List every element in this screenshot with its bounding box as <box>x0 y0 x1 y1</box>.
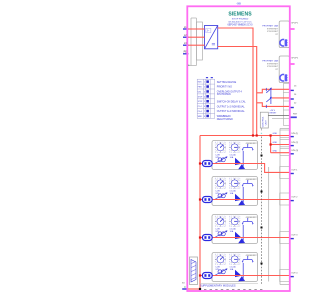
svg-text:24V (2): 24V (2) <box>291 142 298 144</box>
svg-text:SWITCH-ON DELAY & CAL: SWITCH-ON DELAY & CAL <box>217 100 247 103</box>
output channel 3 <box>212 215 258 244</box>
svg-text:PROFINET LAN: PROFINET LAN <box>262 25 278 28</box>
wire mains L2 <box>189 36 205 38</box>
output plug channel 1 <box>202 161 212 167</box>
svg-text:P3+4: P3+4 <box>198 111 202 113</box>
pin 24V(1) <box>289 136 293 138</box>
svg-text:ETHERNET: ETHERNET <box>267 28 279 30</box>
wire 24V(2) <box>271 144 290 146</box>
converter U1 (AC/DC power supply) <box>205 26 218 49</box>
wire 24V branch <box>270 136 272 153</box>
svg-text:OUT 3: OUT 3 <box>291 235 298 237</box>
terminal block X1 (mains input terminal group) <box>188 18 202 66</box>
svg-text:SHUTDOWN: SHUTDOWN <box>217 94 231 96</box>
svg-text:8: 8 <box>204 116 205 118</box>
wire 24V rail <box>200 135 290 137</box>
pin OUT1 <box>289 173 293 175</box>
supplementary feed wire <box>188 288 201 290</box>
svg-text:GND: GND <box>273 133 278 135</box>
output plug channel 2 <box>202 197 212 203</box>
svg-text:ETHERNET: ETHERNET <box>267 63 279 65</box>
svg-text:7: 7 <box>204 111 205 113</box>
svg-text:OVERLOAD OUTPUT 4: OVERLOAD OUTPUT 4 <box>217 91 243 94</box>
node supplementary bus <box>199 288 201 290</box>
junction node bus/aux <box>256 134 258 136</box>
svg-text:6EP3437-8MB00-2CY0: 6EP3437-8MB00-2CY0 <box>228 23 254 26</box>
section separator <box>199 282 258 284</box>
wire mains L1 <box>189 28 205 30</box>
svg-text:OUTPUT 3+4 INDIVIDUAL: OUTPUT 3+4 INDIVIDUAL <box>217 110 246 113</box>
svg-text:SUPPLEMENTARY MODULES: SUPPLEMENTARY MODULES <box>200 283 236 287</box>
junction node channel 4 <box>199 274 201 276</box>
supplementary bus dashed <box>204 289 265 291</box>
DIP switch table S1 <box>197 77 246 121</box>
svg-text:XP1/P2: XP1/P2 <box>291 57 299 59</box>
svg-text:RST: RST <box>293 113 298 115</box>
svg-text:PROFINET LAN: PROFINET LAN <box>262 60 278 63</box>
svg-text:WIREBREAK: WIREBREAK <box>217 115 231 118</box>
D-sub system interface connector X3 <box>190 257 198 285</box>
output plug channel 3 <box>202 235 212 241</box>
terminal rail right side <box>279 129 281 285</box>
control bus dashed <box>261 137 263 285</box>
wire channel 3 output <box>200 237 290 239</box>
terminal 24V(1) <box>280 130 290 138</box>
junction node channel 3 <box>199 236 201 238</box>
wire DC bus top <box>218 28 253 136</box>
PROFINET port U2 <box>262 21 289 48</box>
terminal OUT4 box <box>280 270 290 282</box>
pin OUT3 <box>289 238 293 240</box>
output channel 2 <box>212 177 258 206</box>
node control ch1 <box>261 155 263 157</box>
wire channel feed <box>199 136 201 290</box>
terminal group bracket OUT <box>268 167 270 282</box>
svg-text:4: 4 <box>204 96 205 98</box>
pin L3 <box>183 44 188 46</box>
node control ch4 <box>261 263 263 265</box>
pin 24V(2) <box>289 145 293 147</box>
junction node 24V(2) <box>270 143 272 145</box>
relay terminal group box <box>272 84 290 126</box>
svg-text:UV4: UV4 <box>198 91 201 93</box>
pin XP1/P2 <box>289 61 295 64</box>
output channel 4 <box>212 253 258 282</box>
pin relay 22 <box>289 107 293 109</box>
svg-text:UNIT: UNIT <box>265 119 267 125</box>
svg-text:-X8: -X8 <box>236 2 241 6</box>
svg-text:1: 1 <box>204 82 205 84</box>
svg-text:OUT 4: OUT 4 <box>291 273 298 275</box>
svg-text:SIEMENS: SIEMENS <box>228 12 252 18</box>
wire relay feed NC <box>257 103 290 107</box>
svg-text:/PROFINET: /PROFINET <box>267 66 279 68</box>
reset signal wire <box>268 114 290 116</box>
svg-text:OUT 2: OUT 2 <box>291 197 298 199</box>
svg-text:XP1/P1: XP1/P1 <box>291 22 299 24</box>
junction node channel 2 <box>199 198 201 200</box>
pin OUT4 <box>289 276 293 278</box>
pin OUT2 <box>289 200 293 202</box>
output channel 1 <box>212 141 258 170</box>
svg-text:24V (3): 24V (3) <box>291 150 298 152</box>
wire channel 2 output <box>200 199 290 201</box>
svg-text:6: 6 <box>204 106 205 108</box>
terminal 24V(3) <box>280 149 290 156</box>
svg-text:+24 V: +24 V <box>270 110 276 112</box>
svg-text:RESET: RESET <box>270 113 278 115</box>
pin 24V(3) <box>289 153 293 155</box>
pin X3 <box>182 288 188 290</box>
junction node channel 1 <box>199 162 201 164</box>
pin RST <box>289 116 296 118</box>
output plug channel 4 <box>202 273 212 279</box>
svg-text:2: 2 <box>204 87 205 89</box>
wire DC bus aux <box>218 47 257 136</box>
svg-text:SETTING DEVICE: SETTING DEVICE <box>217 82 237 84</box>
wire channel 4 output <box>200 275 290 277</box>
svg-text:3: 3 <box>204 91 205 93</box>
wire relay feed NO <box>257 89 290 93</box>
relay contact K1 <box>266 88 271 108</box>
terminal 24V(2) <box>280 139 290 146</box>
pin relay 14 <box>289 98 293 100</box>
svg-text:5: 5 <box>204 101 205 103</box>
svg-text:OUTPUT 1+2 INDIVIDUAL: OUTPUT 1+2 INDIVIDUAL <box>217 105 246 108</box>
node control ch3 <box>261 227 263 229</box>
svg-text:SITOP PSU8600: SITOP PSU8600 <box>232 18 249 20</box>
wire channel 1 output <box>200 164 290 173</box>
wire 24V(3) <box>271 152 290 154</box>
PROFINET port U3 <box>262 56 289 83</box>
wire relay common <box>272 97 290 99</box>
junction node bus/feed <box>252 134 254 136</box>
svg-text:DEACTIVATED: DEACTIVATED <box>217 118 233 121</box>
terminal OUT3 box <box>280 232 290 244</box>
wire mains L3 <box>189 44 205 46</box>
pin L2 <box>183 36 188 38</box>
pin XP1/P1 <box>289 26 295 29</box>
control unit U4 <box>260 112 268 130</box>
svg-text:PRIO: PRIO <box>198 87 203 89</box>
svg-text:PRIORITY NO: PRIORITY NO <box>217 87 232 89</box>
pin L1 <box>183 28 188 30</box>
svg-text:P1+2: P1+2 <box>198 106 202 108</box>
terminal OUT2 box <box>280 193 290 205</box>
module boundary <box>187 6 289 291</box>
svg-text:CONTROL: CONTROL <box>262 116 264 127</box>
svg-text:/PROFINET: /PROFINET <box>267 31 279 33</box>
svg-text:GND: GND <box>273 142 278 144</box>
junction node 24V branch <box>270 134 272 136</box>
node control ch2 <box>261 191 263 193</box>
pin relay 13 <box>289 89 293 91</box>
svg-text:GND: GND <box>273 150 278 152</box>
svg-text:24V (1): 24V (1) <box>291 133 298 135</box>
terminal OUT1 box <box>280 167 290 179</box>
svg-text:OUT 1: OUT 1 <box>291 169 298 171</box>
pin PE <box>183 53 188 55</box>
